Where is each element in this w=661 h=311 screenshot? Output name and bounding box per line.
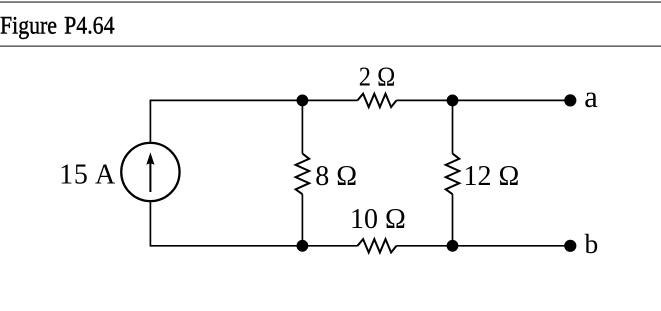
svg-text:8 Ω: 8 Ω	[315, 161, 357, 192]
terminal b dot	[564, 240, 576, 252]
resistor R3 12 ohm (vertical)	[446, 154, 460, 195]
svg-text:15 A: 15 A	[59, 159, 116, 190]
current source I1 arrow	[149, 161, 151, 193]
node junction top-right	[447, 95, 459, 107]
wire: 8ohm branch upper	[301, 100, 303, 153]
resistor R4 10 ohm (bottom, horizontal)	[358, 239, 397, 252]
resistor R1 2 ohm (top, horizontal)	[358, 94, 397, 107]
wire: 12ohm branch upper	[452, 100, 454, 153]
node junction top-middle	[297, 95, 309, 107]
wire: 12ohm branch lower	[452, 194, 454, 246]
svg-text:Figure P4.64: Figure P4.64	[0, 11, 115, 40]
svg-text:a: a	[584, 80, 598, 114]
wire: top from 2ohm to terminal a	[397, 99, 571, 101]
svg-text:2 Ω: 2 Ω	[359, 61, 396, 92]
resistor R2 8 ohm (vertical)	[296, 154, 310, 195]
header top rule	[0, 1, 661, 3]
svg-text:b: b	[585, 228, 599, 259]
node junction bottom-middle	[297, 240, 309, 252]
svg-text:12 Ω: 12 Ω	[464, 161, 520, 192]
svg-text:10 Ω: 10 Ω	[350, 204, 406, 235]
header bottom rule	[0, 45, 661, 47]
wire: bottom from 10ohm to terminal b	[397, 245, 571, 247]
node junction bottom-right	[447, 240, 459, 252]
terminal a dot	[564, 94, 576, 106]
wire: 8ohm branch lower	[301, 194, 303, 246]
wire: top-left from current source to node 1	[150, 100, 357, 143]
current source I1 (15 A) circle	[121, 143, 179, 201]
wire: bottom-left from current source to bottom rail	[150, 201, 357, 246]
